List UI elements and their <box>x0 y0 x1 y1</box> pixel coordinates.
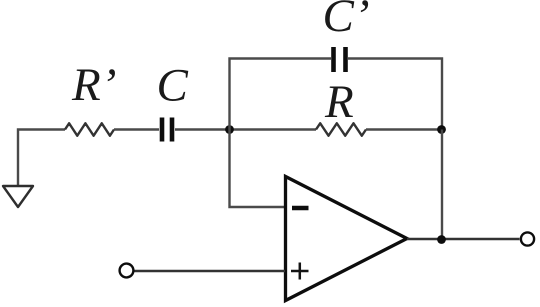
svg-text:C’: C’ <box>323 0 370 42</box>
wire <box>407 238 520 240</box>
svg-text:R’: R’ <box>71 59 116 111</box>
wire <box>348 59 442 130</box>
ground <box>3 186 33 207</box>
resistor R' <box>65 123 114 135</box>
node B <box>437 125 446 134</box>
input terminal <box>120 264 134 278</box>
svg-text:R: R <box>324 76 354 128</box>
label C' <box>323 0 370 42</box>
op-amp U1 <box>286 177 408 301</box>
wire <box>175 128 316 130</box>
capacitor C <box>162 118 172 142</box>
svg-text:C: C <box>157 60 189 112</box>
wire <box>135 270 286 272</box>
label R <box>324 76 354 128</box>
output terminal <box>521 232 534 245</box>
wire <box>230 130 286 208</box>
wire <box>441 130 443 240</box>
label C <box>157 60 189 112</box>
wire <box>114 128 159 130</box>
resistor R <box>316 123 366 135</box>
wire <box>366 128 442 130</box>
capacitor C' <box>334 47 346 72</box>
wire <box>18 130 65 187</box>
node A <box>225 125 234 134</box>
node C <box>437 235 446 244</box>
wire <box>230 59 332 130</box>
label R' <box>71 59 116 111</box>
